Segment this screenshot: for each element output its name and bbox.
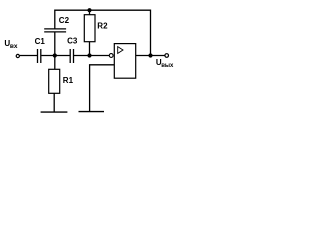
capacitor C3: [69, 49, 71, 63]
wire C2 up and top rail to output branch: [55, 10, 151, 55]
svg-text:R1: R1: [63, 76, 74, 85]
op-amp U1: [109, 44, 135, 79]
svg-text:R2: R2: [97, 21, 108, 30]
svg-text:C2: C2: [59, 16, 70, 25]
wire node A down to R1: [54, 56, 56, 70]
svg-text:вых: вых: [161, 63, 174, 69]
wire C1 to node A: [41, 55, 70, 57]
wire non-inverting input to ground: [90, 65, 115, 112]
wire R1 bottom to ground: [53, 93, 55, 112]
junction dot R2 bottom on main wire: [87, 53, 91, 57]
capacitor C2: [44, 31, 66, 33]
wire input to C1: [20, 55, 37, 57]
label Uвых: [156, 58, 174, 69]
capacitor C1: [37, 49, 39, 63]
junction dot R2 top on rail: [87, 8, 91, 12]
svg-text:C1: C1: [35, 37, 46, 46]
input terminal Uвх: [16, 54, 19, 57]
label C3: [67, 37, 78, 46]
svg-text:вх: вх: [10, 43, 18, 50]
node A junction dot: [53, 53, 57, 57]
label C1: [35, 37, 46, 46]
wire rail to R2 top: [89, 10, 91, 15]
output terminal Uвых: [165, 54, 169, 58]
label Uвх: [4, 39, 17, 50]
label R1: [63, 76, 74, 85]
ground (left): [41, 111, 68, 113]
resistor R2: [84, 15, 95, 42]
wire C3 to op-amp inverting input: [74, 55, 109, 57]
svg-text:C3: C3: [67, 37, 78, 46]
junction dot output node: [148, 53, 152, 57]
wire op-amp output: [136, 55, 165, 57]
resistor R1: [49, 69, 60, 93]
wire R2 bottom to main wire: [89, 42, 91, 56]
ground (right): [79, 111, 105, 113]
wire node A up to C2: [54, 32, 56, 56]
label R2: [97, 21, 108, 30]
label C2: [59, 16, 70, 25]
